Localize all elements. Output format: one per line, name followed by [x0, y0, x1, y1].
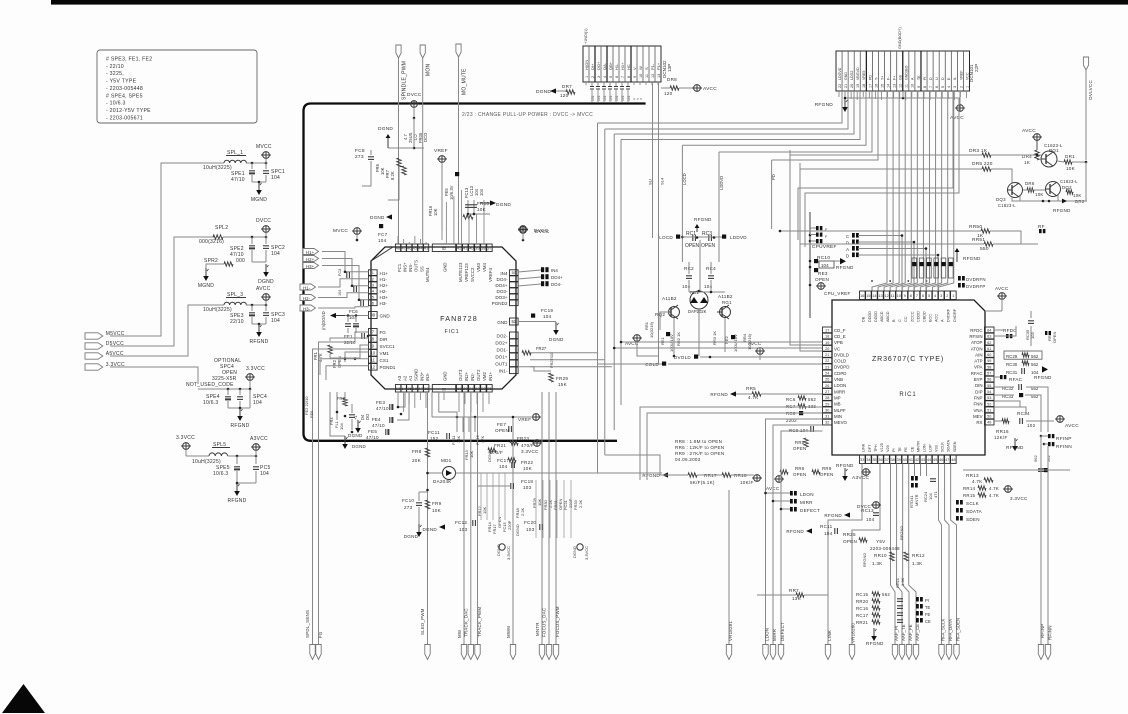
svg-text:AVCC: AVCC: [703, 86, 717, 92]
svg-text:1.3K: 1.3K: [872, 561, 883, 566]
svg-text:22: 22: [475, 386, 479, 391]
svg-text:A3VCC: A3VCC: [852, 475, 870, 481]
svg-text:FC20: FC20: [524, 520, 536, 525]
svg-text:DCO: DCO: [423, 132, 428, 142]
wire RFINN drop: [1047, 446, 1049, 644]
svg-text:101: 101: [621, 95, 625, 101]
svg-text:SDEN: SDEN: [966, 517, 980, 522]
test pad MON: [420, 45, 425, 58]
svg-text:DO4-: DO4-: [551, 282, 562, 287]
svg-text:AVCC: AVCC: [1065, 423, 1079, 429]
wires below fan left: [330, 392, 345, 436]
svg-text:CDPD: CDPD: [834, 371, 846, 376]
capacitor RC5: [255, 456, 257, 464]
svg-text:FIC1: FIC1: [445, 329, 460, 335]
svg-text:LOP: LOP: [928, 444, 932, 452]
svg-text:21: 21: [825, 353, 829, 357]
svg-text:A1: A1: [408, 375, 413, 381]
svg-text:RFGND: RFGND: [836, 463, 854, 468]
svg-text:DR8: DR8: [667, 77, 677, 82]
svg-text:RC31: RC31: [1006, 370, 1018, 375]
wire SVCC1 VM1: [320, 359, 369, 375]
svg-text:RFGND: RFGND: [963, 256, 981, 261]
svg-text:FG: FG: [380, 330, 387, 335]
svg-text:IN1+: IN1+: [488, 371, 493, 381]
svg-text:VR18280: VR18280: [851, 623, 856, 643]
svg-text:4.7K: 4.7K: [748, 395, 759, 400]
svg-text:104: 104: [821, 263, 829, 268]
wire cold left: [598, 363, 663, 365]
svg-text:10K: 10K: [523, 466, 533, 471]
svg-text:26: 26: [825, 384, 829, 388]
svg-text:- 10/6.3: - 10/6.3: [106, 101, 126, 107]
svg-text:2: 2: [959, 86, 963, 88]
svg-text:RC13: RC13: [861, 508, 874, 513]
svg-text:17: 17: [868, 84, 872, 88]
power 3.3VCC rr13: [1005, 486, 1012, 493]
svg-text:OUT2: OUT2: [476, 369, 481, 381]
svg-text:1: 1: [372, 270, 374, 275]
svg-text:RC1: RC1: [686, 231, 696, 237]
connector tag D5VCC: [85, 343, 103, 349]
wires H sensor inputs: [322, 252, 369, 272]
connector tag H2-: [300, 295, 316, 301]
svg-text:A3VCC: A3VCC: [250, 436, 268, 442]
svg-text:1.3K: 1.3K: [900, 577, 905, 586]
svg-text:2203-005448: 2203-005448: [870, 546, 900, 551]
svg-text:2: 2: [591, 76, 595, 78]
wire MNTR LON LOP drops: [914, 464, 916, 477]
wire SLED_PWM drop: [427, 392, 429, 644]
ground RFGND dcn101: [844, 99, 846, 107]
svg-text:53: 53: [987, 396, 991, 400]
svg-text:CE: CE: [925, 619, 931, 624]
power A3VCC below zr: [863, 469, 870, 476]
title bar: [51, 0, 1128, 5]
capacitor FC7 104: [379, 224, 383, 228]
resistor FR25 at OUT1: [522, 351, 531, 355]
svg-text:2.2K: 2.2K: [578, 499, 583, 508]
svg-text:PD: PD: [771, 174, 776, 180]
svg-text:104: 104: [260, 471, 269, 477]
svg-text:SS: SS: [419, 266, 424, 272]
svg-text:DDDD: DDDD: [868, 311, 872, 322]
svg-text:47/10: 47/10: [231, 177, 245, 183]
svg-text:FC3: FC3: [338, 269, 342, 276]
svg-text:FR22: FR22: [521, 460, 533, 465]
wire SPL1 out: [246, 162, 266, 164]
wire 3.3VCC bus: [110, 367, 198, 384]
svg-text:DGND: DGND: [572, 546, 577, 558]
svg-text:1.3K: 1.3K: [912, 561, 923, 566]
wire rr13 box: [963, 469, 1070, 471]
svg-text:DVDPD: DVDPD: [834, 365, 849, 370]
svg-text:37: 37: [884, 458, 888, 462]
svg-text:FC1: FC1: [397, 263, 402, 272]
svg-text:RR8 : 1.8M to OPEN: RR8 : 1.8M to OPEN: [675, 439, 722, 444]
svg-text:DGND: DGND: [487, 450, 492, 462]
svg-text:10: 10: [639, 74, 643, 78]
svg-text:VM1: VM1: [380, 351, 390, 356]
svg-text:31: 31: [825, 415, 829, 419]
DSP IC RIC1 ZR36707 body: [832, 300, 985, 455]
ground DGND fanleft: [344, 436, 346, 444]
svg-text:RFDC: RFDC: [970, 328, 982, 333]
svg-text:RC6: RC6: [786, 397, 796, 402]
svg-text:DO3-: DO3-: [497, 289, 508, 294]
wire MO_MUTE: [458, 57, 460, 244]
wire FIC1 bottom pin stubs: [397, 392, 399, 408]
svg-text:DO1-: DO1-: [497, 347, 508, 352]
svg-text:42: 42: [915, 458, 919, 462]
svg-text:RR9 : 27K/F to OPEN: RR9 : 27K/F to OPEN: [675, 451, 724, 456]
ground RFGND spl3: [258, 324, 260, 332]
svg-text:39: 39: [475, 245, 479, 250]
power AVCC rc34: [1026, 420, 1054, 422]
svg-text:12: 12: [884, 294, 888, 298]
svg-text:57: 57: [987, 372, 991, 376]
connector DCN101 22P: [836, 51, 970, 91]
svg-text:GND: GND: [442, 371, 447, 381]
svg-text:51: 51: [511, 319, 516, 324]
svg-text:LDON: LDON: [834, 383, 846, 388]
ground RFGND rc11: [806, 528, 812, 533]
svg-text:10K: 10K: [477, 207, 487, 212]
svg-text:54: 54: [987, 390, 991, 394]
connector tag A5VCC: [85, 353, 103, 359]
svg-text:RC3: RC3: [702, 231, 712, 237]
svg-text:562: 562: [808, 397, 816, 402]
svg-text:PI: PI: [892, 448, 896, 452]
svg-text:FR21: FR21: [494, 443, 506, 448]
svg-text:104: 104: [253, 400, 262, 406]
FIC1 left pin column lower: [369, 329, 378, 336]
svg-text:GND: GND: [380, 314, 391, 319]
svg-text:FE5: FE5: [368, 429, 377, 434]
svg-text:P1+: P1+: [656, 62, 661, 70]
power DVCC right of FAN: [520, 227, 527, 234]
svg-text:5: 5: [372, 294, 374, 299]
svg-text:SVCC1: SVCC1: [380, 344, 396, 349]
svg-text:RFGND: RFGND: [694, 217, 712, 222]
svg-text:47/10: 47/10: [376, 406, 389, 411]
svg-text:RFINN: RFINN: [1056, 444, 1072, 450]
svg-text:12K/F: 12K/F: [994, 435, 1008, 440]
wire TRACK_PWM drop: [477, 392, 479, 644]
FIC1 pin 49 GND: [369, 312, 378, 319]
RIC1 top pin row: [860, 291, 866, 300]
svg-text:10/6.3V: 10/6.3V: [449, 185, 454, 200]
svg-text:VNB: VNB: [834, 377, 843, 382]
wire RR51 line: [800, 243, 984, 245]
svg-text:ATON: ATON: [971, 346, 983, 351]
wire MWM drop: [512, 417, 514, 644]
svg-text:1: 1: [952, 294, 954, 298]
bead RFAC external: [1000, 375, 1003, 379]
svg-text:DGND: DGND: [348, 433, 363, 438]
connector tag M5VCC: [85, 333, 103, 339]
resistor DR2 10K: [1066, 190, 1073, 194]
svg-text:DIR: DIR: [380, 337, 389, 342]
ground RFGND rr51: [956, 252, 958, 262]
svg-text:PI: PI: [923, 77, 927, 80]
svg-text:P1-: P1-: [650, 63, 655, 70]
svg-text:LDON: LDON: [765, 628, 770, 641]
ground DGND top: [387, 138, 389, 148]
svg-text:120: 120: [560, 93, 569, 98]
svg-text:DA204K: DA204K: [433, 479, 452, 484]
svg-text:RC17: RC17: [856, 613, 869, 618]
svg-text:19: 19: [457, 386, 461, 391]
wire DR5 line: [800, 168, 982, 170]
svg-text:DR3 1K: DR3 1K: [969, 148, 988, 154]
svg-text:IN4: IN4: [551, 268, 558, 273]
wire rd1 top vertical: [699, 240, 701, 291]
svg-text:RR51: RR51: [972, 237, 985, 243]
wire ZR pin19 entry: [640, 407, 823, 480]
svg-text:10K: 10K: [1073, 193, 1082, 198]
svg-text:CPU_VREF: CPU_VREF: [824, 291, 851, 296]
svg-text:11: 11: [371, 357, 376, 362]
svg-text:ABCD: ABCD: [880, 311, 884, 322]
svg-text:MUTE4: MUTE4: [425, 267, 430, 282]
svg-text:104: 104: [499, 464, 508, 469]
svg-text:RR7: RR7: [789, 588, 799, 593]
svg-text:10K/F: 10K/F: [740, 480, 754, 485]
svg-text:RX: RX: [976, 420, 982, 425]
svg-text:152: 152: [430, 436, 439, 441]
svg-text:RR3 1K: RR3 1K: [712, 331, 717, 345]
svg-text:32: 32: [825, 421, 829, 425]
svg-text:INS+: INS+: [402, 262, 407, 272]
svg-text:PGND1: PGND1: [380, 365, 396, 370]
svg-text:10uH(3225): 10uH(3225): [203, 307, 232, 313]
svg-text:TRACK_PWM: TRACK_PWM: [477, 607, 482, 637]
svg-text:RFGND: RFGND: [1034, 375, 1052, 380]
wire ZR pin30 entry: [647, 413, 823, 480]
svg-text:A3: A3: [397, 375, 402, 381]
svg-text:33: 33: [860, 458, 864, 462]
resistor row RC12-RC17: [912, 258, 917, 278]
svg-text:FE: FE: [904, 447, 908, 452]
svg-text:4: 4: [947, 86, 951, 88]
svg-text:104: 104: [271, 175, 280, 181]
svg-text:QA-: QA-: [602, 62, 607, 70]
svg-text:DVOLD: DVOLD: [674, 355, 692, 360]
svg-text:VNA: VNA: [973, 408, 982, 413]
svg-text:IN2-: IN2-: [470, 372, 475, 381]
svg-text:4.7K: 4.7K: [989, 486, 999, 491]
svg-text:FR8: FR8: [412, 449, 422, 454]
wire fr rail verticals: [456, 417, 458, 432]
svg-text:562: 562: [1031, 362, 1039, 367]
svg-text:IN2+: IN2+: [464, 371, 469, 381]
wires zr right mid pins: [994, 401, 1020, 407]
svg-text:15: 15: [866, 294, 870, 298]
svg-text:DAP202K: DAP202K: [688, 309, 707, 314]
svg-text:RC11: RC11: [820, 524, 833, 529]
svg-text:DGND: DGND: [404, 534, 419, 539]
wire RR50 line: [780, 230, 981, 232]
svg-text:MIRR: MIRR: [800, 500, 813, 505]
svg-text:RC30: RC30: [1006, 362, 1018, 367]
svg-text:OPEN: OPEN: [820, 472, 833, 477]
svg-text:RR10: RR10: [874, 553, 887, 558]
svg-text:04.06.2003: 04.06.2003: [675, 457, 701, 462]
wire bundle DCN101 to ZR top: [872, 91, 887, 291]
wire SPDL_SENS drop: [313, 349, 369, 644]
FIC1 left pin column upper: [369, 270, 378, 276]
svg-text:HC: HC: [626, 64, 631, 70]
svg-text:NOT_USED_CODE: NOT_USED_CODE: [186, 382, 234, 388]
svg-text:CD_F: CD_F: [834, 328, 846, 333]
ground DGND spl2: [265, 264, 267, 272]
wire FOCUS_PWM drop: [555, 392, 557, 644]
svg-text:MGND: MGND: [251, 197, 267, 203]
svg-text:PD: PD: [868, 75, 872, 80]
ground DGND fr9: [439, 524, 445, 529]
svg-text:LOCD: LOCD: [659, 235, 673, 240]
svg-text:4: 4: [603, 76, 607, 78]
svg-text:45: 45: [413, 245, 417, 250]
svg-text:+1NDI(1): +1NDI(1): [584, 28, 588, 44]
wire V18280 drop: [852, 464, 880, 645]
svg-text:FC12: FC12: [455, 520, 467, 525]
svg-text:OUT3: OUT3: [458, 369, 463, 381]
svg-text:V: V: [632, 67, 637, 70]
svg-text:- 2203-005448: - 2203-005448: [106, 86, 143, 92]
power AVCC zr topright: [999, 293, 1006, 300]
svg-text:MNTR: MNTR: [916, 441, 920, 452]
svg-text:RR16: RR16: [996, 429, 1009, 434]
svg-text:220P: 220P: [507, 520, 512, 530]
svg-text:8: 8: [923, 86, 927, 88]
svg-text:H1-: H1-: [380, 277, 388, 282]
svg-text:- 2012-Y5V TYPE: - 2012-Y5V TYPE: [106, 108, 151, 114]
svg-text:TE: TE: [917, 75, 921, 80]
wire mid long horizontals: [598, 472, 663, 474]
svg-text:RFGND: RFGND: [1053, 208, 1071, 213]
svg-text:15: 15: [407, 386, 411, 391]
svg-text:64: 64: [987, 328, 991, 332]
test pad MO_MUTE: [456, 44, 461, 57]
svg-text:9: 9: [917, 86, 921, 88]
svg-text:VC: VC: [834, 346, 840, 351]
svg-text:6: 6: [372, 300, 374, 305]
power A3VCC rr18: [754, 475, 761, 482]
svg-text:FG: FG: [318, 631, 323, 638]
svg-text:A11B2: A11B2: [718, 294, 733, 299]
svg-text:62: 62: [987, 341, 991, 345]
power AVCC dcn101: [959, 91, 961, 104]
svg-text:H2+: H2+: [380, 283, 389, 288]
svg-text:5: 5: [941, 86, 945, 88]
svg-text:11: 11: [905, 84, 909, 88]
connector tag H3-: [300, 305, 316, 311]
svg-text:CS1: CS1: [380, 358, 389, 363]
svg-text:RFGND: RFGND: [249, 339, 268, 345]
svg-text:H3-: H3-: [303, 307, 311, 312]
svg-text:DR5 220: DR5 220: [972, 161, 993, 167]
svg-text:DVCC: DVCC: [256, 218, 271, 224]
svg-text:6: 6: [922, 294, 924, 298]
svg-text:FE6: FE6: [309, 410, 314, 418]
svg-text:61: 61: [987, 347, 991, 351]
svg-text:63: 63: [987, 335, 991, 339]
svg-text:VREF123: VREF123: [464, 263, 469, 282]
svg-text:GND(BODY): GND(BODY): [898, 27, 902, 49]
wire ZR pin21 entry: [621, 341, 823, 343]
svg-text:OPEN: OPEN: [815, 277, 829, 282]
bead RTD41 MNTR: [911, 476, 914, 481]
svg-text:10: 10: [897, 294, 901, 298]
svg-text:103: 103: [459, 527, 468, 532]
svg-text:RC10: RC10: [817, 255, 830, 261]
wire rc35 frame: [994, 326, 1016, 336]
svg-text:LDGVD: LDGVD: [838, 67, 842, 80]
svg-text:104: 104: [271, 251, 280, 257]
svg-text:SPDL_SENS: SPDL_SENS: [305, 610, 310, 638]
svg-text:RFA_SDEN: RFA_SDEN: [956, 618, 961, 641]
wire bundle SL vertical pair: [652, 82, 654, 238]
bead SDATA: [956, 508, 959, 513]
wire DQ2 DQ3 ground bus: [1023, 189, 1045, 191]
wire D5VCC bus: [110, 237, 215, 346]
svg-text:46: 46: [407, 245, 411, 250]
wire DCN101 right steps: [798, 91, 953, 240]
svg-text:47: 47: [945, 458, 949, 462]
svg-text:FR27/10: FR27/10: [549, 352, 554, 368]
svg-text:AAF_FE: AAF_FE: [908, 624, 913, 641]
svg-text:(m)DGND: (m)DGND: [321, 311, 326, 330]
svg-text:13: 13: [893, 84, 897, 88]
capacitor SPE5: [236, 456, 238, 464]
svg-text:RC16: RC16: [856, 606, 869, 611]
svg-text:S: S: [644, 67, 649, 70]
svg-text:101: 101: [615, 95, 619, 101]
svg-text:VPB: VPB: [834, 340, 843, 345]
svg-text:ATOP: ATOP: [971, 340, 983, 345]
wire AAF drops: [891, 464, 896, 645]
svg-text:A11B2: A11B2: [662, 296, 677, 301]
svg-text:39: 39: [897, 458, 901, 462]
svg-text:RFA_SCLK: RFA_SCLK: [941, 618, 946, 641]
svg-text:LDDVD: LDDVD: [730, 235, 747, 240]
svg-text:DGND: DGND: [422, 527, 437, 532]
svg-text:DI+: DI+: [590, 63, 595, 70]
svg-text:1: 1: [965, 86, 969, 88]
ground RFGND rc31 arrow: [1042, 366, 1048, 372]
svg-text:FC6: FC6: [349, 309, 358, 314]
node COLD: [662, 362, 666, 366]
svg-text:50: 50: [987, 415, 991, 419]
svg-text:SCLK: SCLK: [966, 501, 980, 506]
svg-text:59: 59: [987, 359, 991, 363]
svg-text:H2-: H2-: [303, 296, 311, 301]
wires FR1 FR2 to pins: [330, 338, 369, 341]
svg-text:19: 19: [825, 341, 829, 345]
RIC1 bottom pin row: [860, 455, 866, 464]
bead DVDRFP: [958, 283, 961, 288]
svg-text:8.2K: 8.2K: [390, 171, 395, 180]
svg-text:FR9: FR9: [432, 501, 442, 506]
connector tag 3.3VCC: [85, 364, 103, 370]
svg-text:MB: MB: [834, 402, 841, 407]
ground RFGND rr5: [730, 391, 736, 396]
wire TRACK_DAC drop: [470, 392, 472, 644]
svg-text:MGND: MGND: [198, 283, 214, 289]
svg-text:SLED_PWM: SLED_PWM: [420, 608, 425, 635]
